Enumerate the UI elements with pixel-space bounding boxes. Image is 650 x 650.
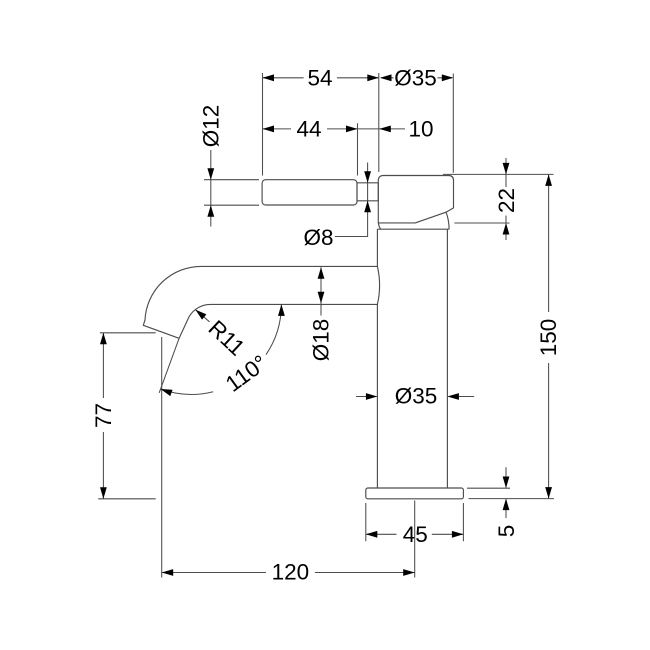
dimension Ø18 (309, 267, 334, 361)
dimension 22 (443, 158, 554, 240)
svg-text:Ø12: Ø12 (199, 105, 224, 148)
dimension 150 (469, 174, 562, 498)
handle connector stem (357, 183, 378, 201)
radius leader R11 (193, 307, 249, 361)
housing bottom right arc (446, 212, 449, 229)
angle leg line 110 (159, 338, 179, 393)
svg-text:77: 77 (91, 403, 116, 428)
spout tube (143, 266, 378, 338)
svg-text:Ø8: Ø8 (303, 225, 333, 250)
svg-text:Ø35: Ø35 (394, 65, 437, 90)
handle cartridge housing (378, 176, 453, 223)
svg-text:44: 44 (296, 116, 321, 141)
dimension 44 (263, 116, 358, 175)
dimension 77 (91, 333, 156, 499)
svg-text:54: 54 (307, 65, 332, 90)
svg-text:22: 22 (494, 188, 519, 213)
dimension 120 (162, 337, 415, 585)
dimension Ø12 (199, 105, 260, 227)
svg-text:Ø35: Ø35 (395, 384, 438, 409)
svg-text:45: 45 (403, 522, 428, 547)
tap body cylinder (377, 229, 449, 488)
svg-text:5: 5 (494, 525, 519, 538)
svg-text:10: 10 (408, 116, 433, 141)
dimension 5 (467, 467, 519, 537)
svg-text:120: 120 (272, 560, 310, 585)
dimension Ø35 top (380, 65, 453, 173)
base plate flange (366, 488, 464, 499)
dimension Ø8 (303, 163, 371, 251)
dimension Ø35 body (356, 384, 474, 409)
svg-text:150: 150 (536, 319, 561, 357)
handle lever (262, 180, 357, 205)
dimension 45 (366, 503, 464, 547)
svg-text:Ø18: Ø18 (309, 319, 334, 362)
dimension 10 (358, 116, 434, 141)
angle arc 110 (159, 304, 284, 396)
housing bottom left arc (378, 223, 380, 229)
dimension 54 (263, 65, 379, 175)
